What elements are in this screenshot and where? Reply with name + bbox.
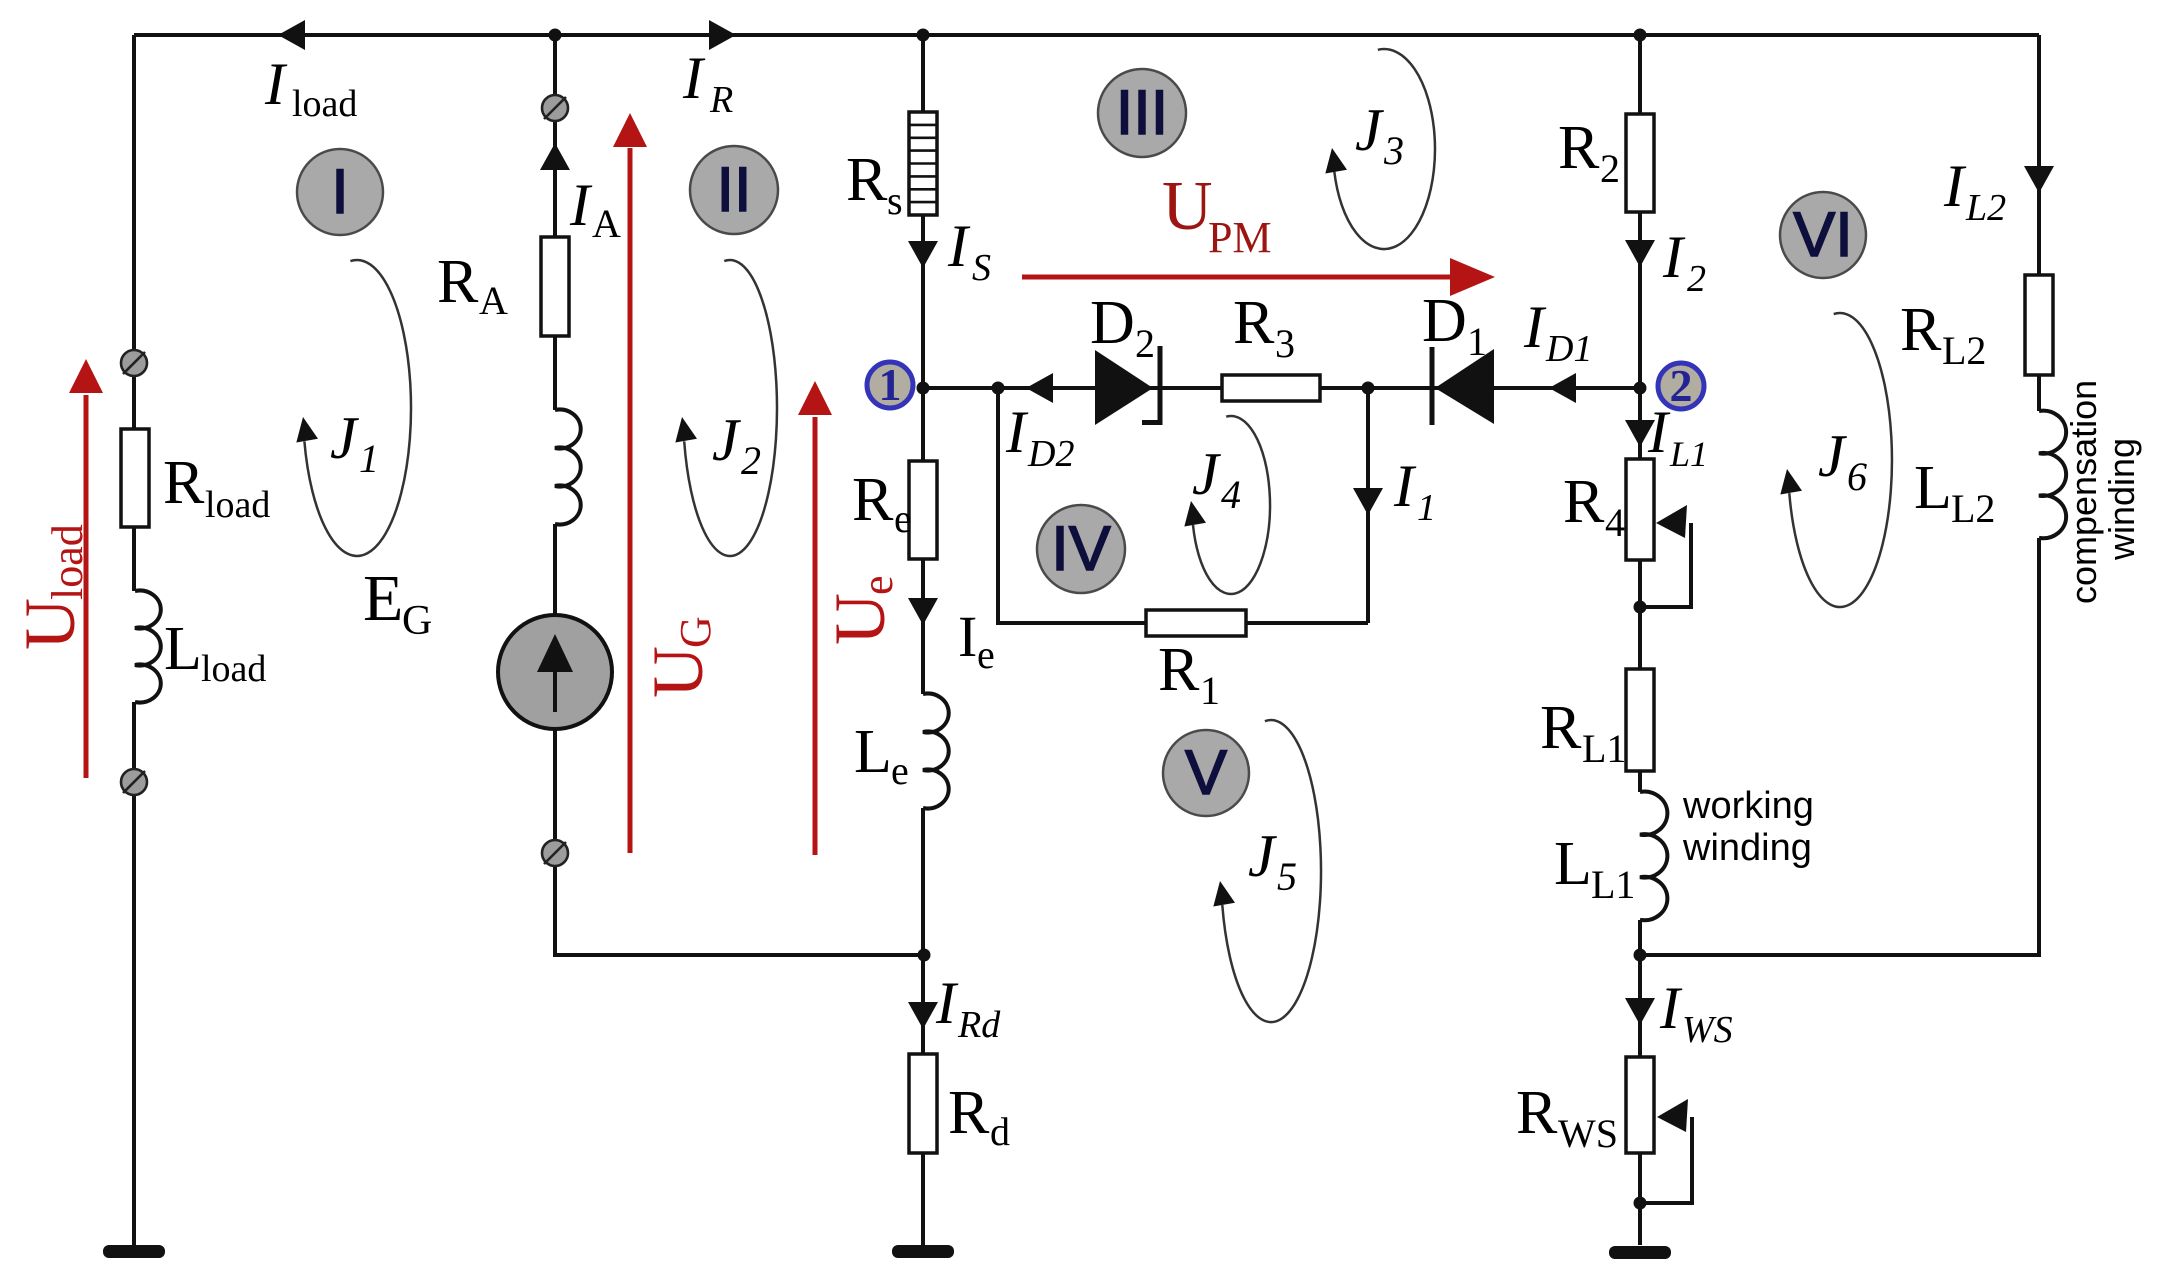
loop badge II bbox=[690, 146, 778, 234]
svg-text:R: R bbox=[709, 79, 733, 121]
svg-text:e: e bbox=[977, 632, 995, 677]
ground left bbox=[103, 1245, 165, 1258]
RED VOLTAGE ARROWS bbox=[86, 148, 1452, 855]
mesh arc J3 bbox=[1334, 49, 1435, 249]
svg-text:2: 2 bbox=[1687, 258, 1706, 300]
svg-text:J: J bbox=[1818, 423, 1847, 489]
svg-text:3: 3 bbox=[1275, 321, 1295, 366]
arrow Ie bbox=[908, 598, 938, 625]
inductor LA bbox=[555, 410, 581, 525]
junction RWS-return bbox=[1634, 1197, 1647, 1210]
svg-text:Rd: Rd bbox=[957, 1004, 1001, 1046]
svg-text:IV: IV bbox=[1051, 514, 1111, 584]
svg-text:I: I bbox=[1647, 399, 1671, 465]
arrow IL1 bbox=[1625, 420, 1655, 447]
resistor Rload bbox=[121, 429, 149, 527]
svg-text:I: I bbox=[682, 45, 706, 111]
svg-text:L: L bbox=[854, 718, 892, 786]
arrow IWS bbox=[1625, 998, 1655, 1025]
svg-text:PM: PM bbox=[1208, 213, 1272, 262]
svg-text:VI: VI bbox=[1793, 200, 1853, 270]
arrow IRd bbox=[908, 1002, 938, 1029]
junction top-mid bbox=[917, 29, 930, 42]
svg-text:E: E bbox=[363, 562, 403, 635]
svg-text:2: 2 bbox=[1600, 146, 1620, 191]
arrow I2 bbox=[1625, 240, 1655, 267]
loop badge III bbox=[1098, 69, 1186, 157]
svg-text:1: 1 bbox=[1200, 668, 1220, 713]
svg-text:U: U bbox=[1162, 168, 1213, 245]
svg-text:1: 1 bbox=[879, 359, 902, 410]
svg-text:winding: winding bbox=[2101, 438, 2142, 561]
svg-text:3: 3 bbox=[1383, 128, 1404, 173]
wire RWS wiper bbox=[1640, 1117, 1692, 1203]
svg-text:D2: D2 bbox=[1027, 433, 1074, 475]
arrow I1 bbox=[1353, 488, 1383, 515]
mesh arrow J3 bbox=[1321, 146, 1347, 173]
svg-text:I: I bbox=[935, 970, 959, 1036]
wire R4 wiper bbox=[1640, 523, 1691, 607]
svg-text:G: G bbox=[402, 598, 432, 644]
mesh arrow J1 bbox=[292, 415, 318, 442]
resistor Rs stripes bbox=[910, 125, 936, 202]
junction right-bottom bbox=[1634, 949, 1647, 962]
svg-text:working: working bbox=[1682, 785, 1814, 827]
svg-text:4: 4 bbox=[1605, 500, 1625, 545]
svg-text:S: S bbox=[972, 247, 991, 289]
mesh arc J5 bbox=[1222, 720, 1321, 1022]
junction node1 bbox=[917, 382, 930, 395]
resistor Rs bbox=[909, 112, 937, 215]
arrow IR bbox=[709, 20, 736, 50]
svg-text:I: I bbox=[1662, 224, 1686, 290]
resistor R2 bbox=[1626, 114, 1654, 212]
svg-text:1: 1 bbox=[359, 436, 379, 481]
svg-text:I: I bbox=[264, 51, 288, 117]
label compensation winding bbox=[2063, 380, 2104, 604]
svg-text:R: R bbox=[163, 449, 205, 517]
svg-text:J: J bbox=[1192, 441, 1221, 507]
svg-text:1: 1 bbox=[1467, 319, 1487, 364]
inductor LL1 bbox=[1640, 792, 1667, 921]
svg-text:1: 1 bbox=[1417, 487, 1436, 529]
resistor RL2 bbox=[2025, 275, 2053, 375]
resistor RL1 bbox=[1626, 669, 1654, 771]
svg-text:R: R bbox=[1516, 1079, 1558, 1147]
arrow Iload bbox=[278, 20, 305, 50]
arrowhead Uload bbox=[69, 359, 103, 393]
svg-text:WS: WS bbox=[1558, 1111, 1618, 1156]
svg-text:4: 4 bbox=[1221, 472, 1241, 517]
junction R4-return bbox=[1634, 601, 1647, 614]
svg-text:U: U bbox=[820, 593, 900, 645]
svg-text:L: L bbox=[164, 615, 202, 683]
junction loop4-left bbox=[992, 382, 1005, 395]
mesh arrow J6 bbox=[1776, 467, 1802, 494]
svg-text:R: R bbox=[846, 146, 888, 214]
svg-text:G: G bbox=[671, 616, 720, 648]
junction top-right bbox=[1634, 29, 1647, 42]
svg-text:2: 2 bbox=[1670, 360, 1693, 411]
inductor Le bbox=[923, 694, 949, 809]
arrow Uload bbox=[84, 395, 89, 778]
mesh arrow J4 bbox=[1180, 499, 1206, 526]
svg-text:e: e bbox=[891, 748, 909, 793]
junction top-A bbox=[549, 29, 562, 42]
svg-text:load: load bbox=[43, 524, 92, 600]
svg-text:L2: L2 bbox=[1951, 486, 1995, 531]
node 1 bbox=[867, 362, 913, 408]
label Uload bbox=[10, 524, 92, 650]
terminal screw generator bbox=[542, 840, 568, 866]
arrowhead UPM bbox=[1450, 258, 1495, 296]
svg-text:e: e bbox=[894, 496, 912, 541]
label UG bbox=[638, 616, 720, 698]
ground middle bbox=[892, 1245, 954, 1258]
node 2 bbox=[1658, 363, 1704, 409]
arrow UG bbox=[628, 148, 633, 853]
svg-text:I: I bbox=[1393, 453, 1417, 519]
svg-text:s: s bbox=[887, 178, 903, 223]
resistor Rd bbox=[909, 1054, 937, 1153]
junction mid-bottom bbox=[918, 949, 931, 962]
terminal screw left-lower bbox=[121, 769, 147, 795]
arrowhead Ue bbox=[798, 381, 832, 415]
label Ue bbox=[820, 575, 902, 645]
mesh arc J1 bbox=[304, 260, 411, 556]
inductor LL2 bbox=[2039, 411, 2066, 539]
svg-text:I: I bbox=[331, 157, 349, 227]
svg-text:R: R bbox=[948, 1079, 990, 1147]
svg-text:A: A bbox=[479, 278, 508, 323]
resistor RWS bbox=[1626, 1057, 1654, 1153]
svg-text:D1: D1 bbox=[1545, 328, 1592, 370]
svg-text:compensation: compensation bbox=[2063, 380, 2104, 604]
svg-text:U: U bbox=[638, 646, 718, 698]
diode D2 bbox=[1095, 350, 1153, 425]
svg-text:R: R bbox=[1558, 114, 1600, 182]
ground right bbox=[1609, 1246, 1671, 1259]
svg-text:L: L bbox=[1914, 454, 1952, 522]
mesh arc J4 bbox=[1193, 416, 1270, 594]
svg-text:L2: L2 bbox=[1965, 187, 2006, 229]
terminal screw left-upper bbox=[121, 350, 147, 376]
CURRENT ARROWS bbox=[278, 20, 2054, 1132]
svg-text:II: II bbox=[716, 155, 751, 225]
svg-text:D: D bbox=[1422, 287, 1467, 355]
svg-text:J: J bbox=[1248, 823, 1277, 889]
arrow IA bbox=[540, 143, 570, 170]
svg-text:L2: L2 bbox=[1942, 328, 1986, 373]
arrow UPM bbox=[1022, 275, 1452, 280]
wire right branch bbox=[1638, 35, 1642, 1245]
junction node2 bbox=[1634, 382, 1647, 395]
arrow RWS wiper bbox=[1657, 1099, 1688, 1132]
svg-text:I: I bbox=[569, 172, 593, 238]
LOOP CIRCLES bbox=[297, 69, 1866, 816]
mesh arrow J2 bbox=[671, 415, 697, 442]
svg-text:2: 2 bbox=[1135, 321, 1155, 366]
loop badge I bbox=[297, 149, 383, 235]
svg-text:load: load bbox=[201, 648, 266, 690]
svg-text:R: R bbox=[1233, 289, 1275, 357]
mesh arc J2 bbox=[684, 260, 777, 556]
current source EG bbox=[498, 615, 612, 729]
mesh arrow J5 bbox=[1209, 879, 1235, 906]
svg-text:R: R bbox=[1900, 296, 1942, 364]
mesh arc J6 bbox=[1789, 313, 1892, 607]
wire left branch bbox=[132, 35, 136, 1245]
svg-text:III: III bbox=[1116, 78, 1169, 148]
svg-text:I: I bbox=[1659, 975, 1683, 1041]
resistor Re bbox=[909, 461, 937, 559]
wire middle branch bbox=[921, 35, 925, 1245]
svg-text:I: I bbox=[1943, 153, 1967, 219]
svg-text:J: J bbox=[330, 405, 359, 471]
diode D1 bbox=[1435, 349, 1494, 424]
wire loop IV bbox=[998, 388, 1368, 623]
MESH CURRENT ARCS bbox=[304, 49, 1892, 1022]
svg-text:R: R bbox=[1158, 636, 1200, 704]
svg-text:winding: winding bbox=[1682, 827, 1812, 869]
wire generator branch bbox=[555, 35, 923, 955]
loop badge V bbox=[1163, 730, 1249, 816]
svg-text:R: R bbox=[437, 248, 479, 316]
arrow R4 wiper bbox=[1656, 505, 1687, 538]
wire node1-node2 bbox=[923, 386, 1640, 390]
svg-text:I: I bbox=[958, 604, 977, 669]
svg-text:5: 5 bbox=[1277, 854, 1297, 899]
svg-text:I: I bbox=[947, 213, 971, 279]
junction I1 bbox=[1362, 382, 1375, 395]
svg-text:R: R bbox=[1563, 468, 1605, 536]
resistor RA bbox=[541, 237, 569, 336]
arrowhead UG bbox=[613, 113, 647, 147]
svg-text:L: L bbox=[1554, 830, 1592, 898]
svg-text:J: J bbox=[1355, 97, 1384, 163]
svg-text:R: R bbox=[1540, 694, 1582, 762]
inductor Lload bbox=[135, 591, 161, 703]
svg-text:U: U bbox=[10, 598, 90, 650]
resistor R4 bbox=[1626, 459, 1654, 560]
svg-text:6: 6 bbox=[1847, 454, 1867, 499]
terminal screw top bbox=[542, 95, 568, 121]
arrow IL2 bbox=[2024, 166, 2054, 193]
resistor R3 bbox=[1222, 375, 1320, 401]
loop badge IV bbox=[1037, 505, 1125, 593]
svg-text:I: I bbox=[1523, 294, 1547, 360]
svg-text:2: 2 bbox=[741, 438, 761, 483]
arrow ID1 bbox=[1549, 373, 1576, 403]
svg-text:L1: L1 bbox=[1582, 726, 1626, 771]
svg-text:L1: L1 bbox=[1669, 434, 1708, 474]
svg-text:load: load bbox=[205, 484, 270, 526]
wire compensation branch bbox=[1640, 35, 2039, 955]
svg-text:L1: L1 bbox=[1591, 862, 1635, 907]
arrow IS bbox=[908, 241, 938, 268]
wire top bus bbox=[134, 33, 2039, 37]
loop badge VI bbox=[1780, 192, 1866, 278]
svg-text:R: R bbox=[852, 466, 894, 534]
svg-text:load: load bbox=[292, 83, 357, 125]
svg-text:WS: WS bbox=[1682, 1009, 1733, 1051]
svg-text:D: D bbox=[1090, 289, 1135, 357]
svg-text:V: V bbox=[1185, 738, 1227, 808]
svg-text:A: A bbox=[592, 201, 621, 246]
svg-text:e: e bbox=[853, 575, 902, 595]
svg-text:d: d bbox=[990, 1109, 1010, 1154]
arrow ID2 bbox=[1026, 373, 1053, 403]
arrow Ue bbox=[813, 417, 818, 855]
svg-text:I: I bbox=[1005, 399, 1029, 465]
resistor R1 bbox=[1146, 610, 1246, 636]
svg-text:J: J bbox=[712, 407, 741, 473]
